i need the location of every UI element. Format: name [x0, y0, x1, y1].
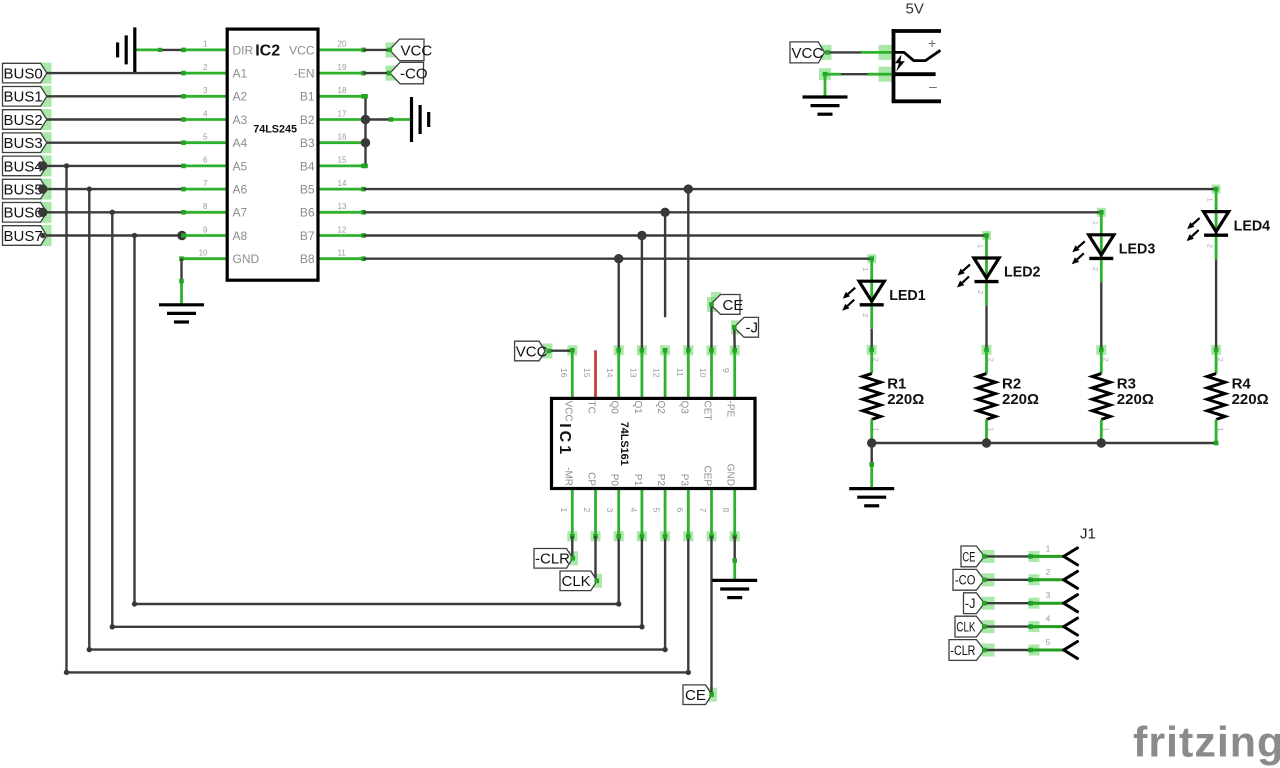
svg-text:9: 9 [721, 368, 731, 373]
svg-text:2: 2 [861, 313, 870, 317]
svg-text:B6: B6 [300, 206, 315, 220]
svg-text:Q0: Q0 [609, 401, 620, 415]
svg-text:BUS0: BUS0 [4, 66, 43, 83]
svg-text:Q2: Q2 [655, 401, 666, 415]
svg-text:-EN: -EN [294, 67, 315, 81]
svg-text:4: 4 [628, 508, 638, 513]
svg-text:GND: GND [725, 464, 736, 486]
svg-text:2: 2 [1091, 267, 1100, 271]
svg-text:2: 2 [872, 358, 881, 362]
svg-text:Q3: Q3 [678, 401, 689, 415]
svg-text:3: 3 [1046, 590, 1051, 600]
svg-text:A2: A2 [233, 90, 248, 104]
svg-text:VCC: VCC [562, 401, 573, 422]
svg-text:CEP: CEP [702, 465, 713, 486]
svg-text:14: 14 [338, 179, 347, 188]
svg-text:-MR: -MR [562, 467, 573, 486]
svg-text:1: 1 [1101, 428, 1110, 432]
svg-text:7: 7 [698, 508, 708, 513]
svg-text:CLK: CLK [562, 573, 591, 590]
svg-text:9: 9 [203, 225, 208, 234]
svg-text:CE: CE [962, 549, 975, 564]
svg-text:P1: P1 [632, 474, 643, 487]
svg-text:7: 7 [203, 179, 208, 188]
svg-text:2: 2 [1101, 358, 1110, 362]
svg-text:-PE: -PE [725, 401, 736, 418]
svg-text:A6: A6 [233, 183, 248, 197]
svg-text:P3: P3 [678, 474, 689, 487]
svg-text:2: 2 [582, 508, 592, 513]
svg-text:8: 8 [721, 508, 731, 513]
svg-text:BUS2: BUS2 [4, 112, 43, 129]
svg-text:6: 6 [675, 508, 685, 513]
svg-text:-CLR: -CLR [535, 551, 570, 568]
svg-text:17: 17 [338, 109, 347, 118]
svg-text:220Ω: 220Ω [1232, 391, 1269, 408]
svg-text:IC2: IC2 [255, 42, 280, 59]
svg-text:DIR: DIR [233, 43, 254, 57]
svg-text:6: 6 [203, 156, 208, 165]
svg-text:VCC: VCC [516, 343, 548, 360]
svg-text:B8: B8 [300, 252, 315, 266]
svg-text:18: 18 [338, 86, 347, 95]
svg-text:P0: P0 [609, 474, 620, 487]
svg-text:Q1: Q1 [632, 401, 643, 415]
svg-text:2: 2 [203, 63, 208, 72]
svg-text:5: 5 [203, 133, 208, 142]
svg-text:10: 10 [698, 368, 708, 378]
svg-text:1: 1 [976, 244, 985, 248]
svg-text:1: 1 [872, 428, 881, 432]
svg-text:2: 2 [1046, 567, 1051, 577]
svg-text:VCC: VCC [289, 43, 315, 57]
svg-text:B4: B4 [300, 159, 315, 173]
svg-text:1: 1 [559, 508, 569, 513]
svg-text:GND: GND [233, 252, 260, 266]
svg-text:A3: A3 [233, 113, 248, 127]
svg-text:15: 15 [582, 368, 592, 378]
svg-text:A5: A5 [233, 159, 248, 173]
svg-text:B3: B3 [300, 136, 315, 150]
svg-text:12: 12 [652, 368, 662, 378]
svg-text:13: 13 [628, 368, 638, 378]
svg-text:VCC: VCC [401, 42, 433, 59]
svg-text:220Ω: 220Ω [1117, 391, 1154, 408]
svg-text:IC1: IC1 [556, 423, 573, 457]
svg-text:1: 1 [1046, 543, 1051, 553]
svg-text:-CO: -CO [400, 66, 428, 83]
svg-text:BUS3: BUS3 [4, 135, 43, 152]
svg-text:8: 8 [203, 202, 208, 211]
svg-text:-J: -J [965, 596, 976, 611]
svg-text:13: 13 [338, 202, 347, 211]
svg-text:-CO: -CO [955, 573, 976, 588]
svg-text:fritzing: fritzing [1133, 719, 1280, 767]
svg-text:74LS245: 74LS245 [253, 124, 297, 136]
svg-text:16: 16 [559, 368, 569, 378]
svg-text:A1: A1 [233, 67, 248, 81]
svg-text:74LS161: 74LS161 [618, 422, 630, 466]
svg-text:A4: A4 [233, 136, 248, 150]
svg-text:15: 15 [338, 156, 347, 165]
svg-text:1: 1 [203, 40, 208, 49]
svg-text:CLK: CLK [956, 620, 975, 635]
svg-text:B5: B5 [300, 183, 315, 197]
svg-text:TC: TC [586, 401, 597, 414]
svg-text:2: 2 [976, 290, 985, 294]
svg-text:11: 11 [675, 368, 685, 377]
svg-text:1: 1 [1091, 221, 1100, 225]
svg-text:1: 1 [987, 428, 996, 432]
svg-text:5: 5 [652, 508, 662, 513]
svg-text:BUS7: BUS7 [4, 228, 43, 245]
svg-text:16: 16 [338, 133, 347, 142]
svg-text:3: 3 [605, 508, 615, 513]
svg-text:10: 10 [199, 249, 208, 258]
svg-text:3: 3 [203, 86, 208, 95]
svg-text:-J: -J [746, 320, 759, 337]
svg-text:14: 14 [605, 368, 615, 378]
svg-text:19: 19 [338, 63, 347, 72]
svg-text:+: + [928, 35, 936, 51]
svg-text:-CLR: -CLR [950, 643, 975, 658]
svg-text:220Ω: 220Ω [1002, 391, 1039, 408]
svg-text:B2: B2 [300, 113, 315, 127]
svg-text:BUS1: BUS1 [4, 89, 43, 106]
svg-text:12: 12 [338, 225, 347, 234]
svg-text:BUS4: BUS4 [4, 158, 43, 175]
svg-text:BUS5: BUS5 [4, 182, 43, 199]
svg-text:CE: CE [723, 297, 744, 314]
svg-text:4: 4 [203, 109, 208, 118]
svg-text:BUS6: BUS6 [4, 205, 43, 222]
svg-text:2: 2 [1216, 358, 1225, 362]
svg-text:P2: P2 [655, 474, 666, 487]
svg-text:CET: CET [702, 401, 713, 421]
svg-text:CP: CP [586, 472, 597, 486]
svg-text:20: 20 [338, 40, 347, 49]
svg-text:B1: B1 [300, 90, 315, 104]
svg-text:5: 5 [1046, 637, 1051, 647]
svg-text:LED4: LED4 [1234, 217, 1271, 234]
svg-text:2: 2 [987, 358, 996, 362]
svg-text:J1: J1 [1080, 526, 1096, 543]
svg-text:1: 1 [861, 267, 870, 271]
svg-text:–: – [929, 78, 937, 94]
svg-text:CE: CE [685, 687, 706, 704]
svg-text:1: 1 [1216, 428, 1225, 432]
svg-text:VCC: VCC [792, 45, 824, 62]
svg-text:2: 2 [1206, 244, 1215, 248]
svg-text:11: 11 [338, 249, 347, 258]
svg-text:5V: 5V [906, 1, 924, 18]
svg-text:4: 4 [1046, 614, 1051, 624]
svg-text:B7: B7 [300, 229, 315, 243]
svg-text:220Ω: 220Ω [887, 391, 924, 408]
svg-text:LED2: LED2 [1004, 264, 1041, 281]
svg-text:A7: A7 [233, 206, 248, 220]
svg-text:LED1: LED1 [889, 287, 926, 304]
svg-text:1: 1 [1206, 198, 1215, 202]
svg-text:A8: A8 [233, 229, 248, 243]
svg-text:LED3: LED3 [1119, 241, 1156, 258]
